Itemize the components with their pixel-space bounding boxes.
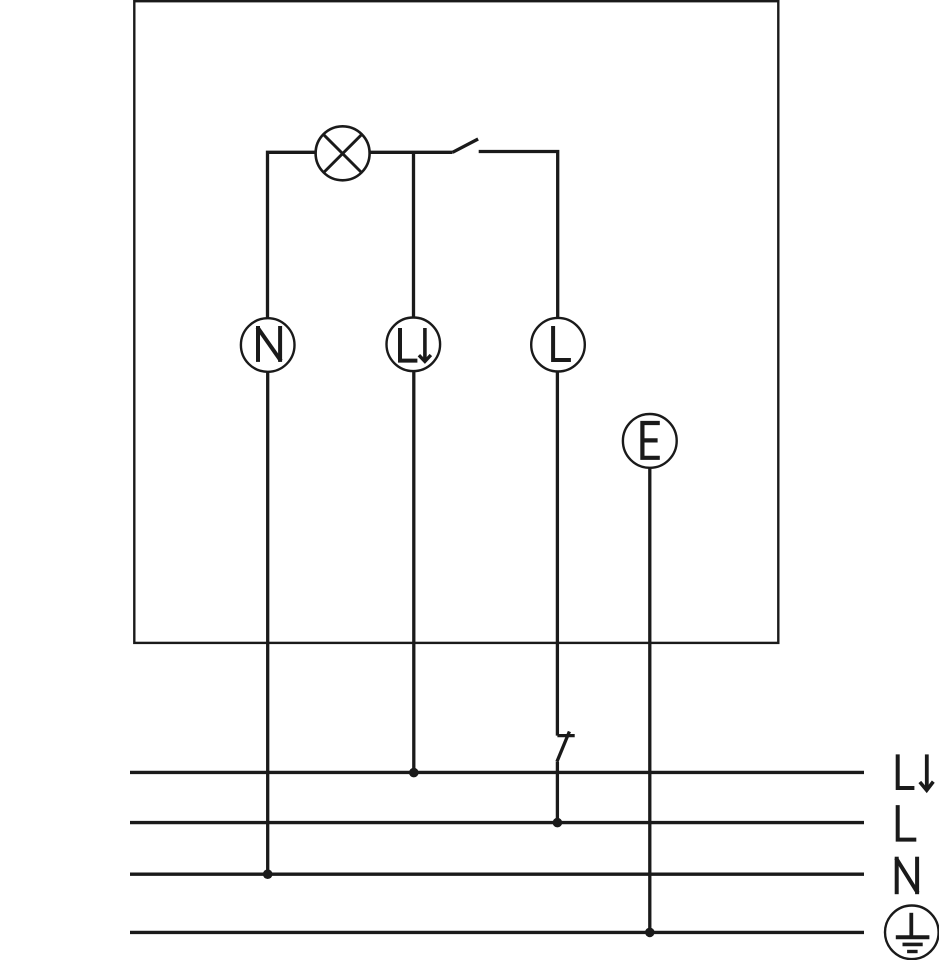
switch S2 fixed contact bar	[557, 734, 574, 737]
terminal L	[531, 318, 585, 372]
wire: L drop upper part to switch S2	[556, 372, 559, 736]
terminal E	[623, 414, 677, 468]
wire: L-down drop to L-down bus	[412, 371, 415, 772]
label L	[898, 805, 917, 840]
wire: E drop to earth bus	[648, 468, 651, 933]
label L-down	[898, 754, 934, 790]
junction dot L-down	[409, 768, 419, 778]
bus line L-down	[130, 771, 864, 774]
wire: switch right horizontal and L vertical inside box	[479, 152, 558, 319]
terminal Ldown	[387, 318, 441, 372]
junction dot E	[645, 928, 655, 938]
bus line N	[130, 873, 864, 876]
terminal N	[241, 318, 295, 372]
label N	[896, 857, 918, 895]
wire: lamp left horizontal	[268, 152, 317, 318]
junction dot L	[553, 818, 563, 828]
earth symbol	[885, 906, 939, 960]
junction dot N	[263, 869, 273, 879]
switch S1 blade	[453, 139, 479, 152]
wire: L drop lower part to L bus	[556, 762, 559, 823]
switch S2 blade	[557, 732, 570, 762]
wire: N drop to N bus	[266, 372, 269, 874]
wire: lamp right horizontal to switch	[369, 151, 452, 154]
bus line earth	[130, 931, 864, 934]
bus line L	[130, 821, 864, 824]
wire: L-down vertical inside box	[412, 152, 415, 317]
lamp E1	[316, 126, 370, 180]
device outline box	[134, 1, 778, 643]
